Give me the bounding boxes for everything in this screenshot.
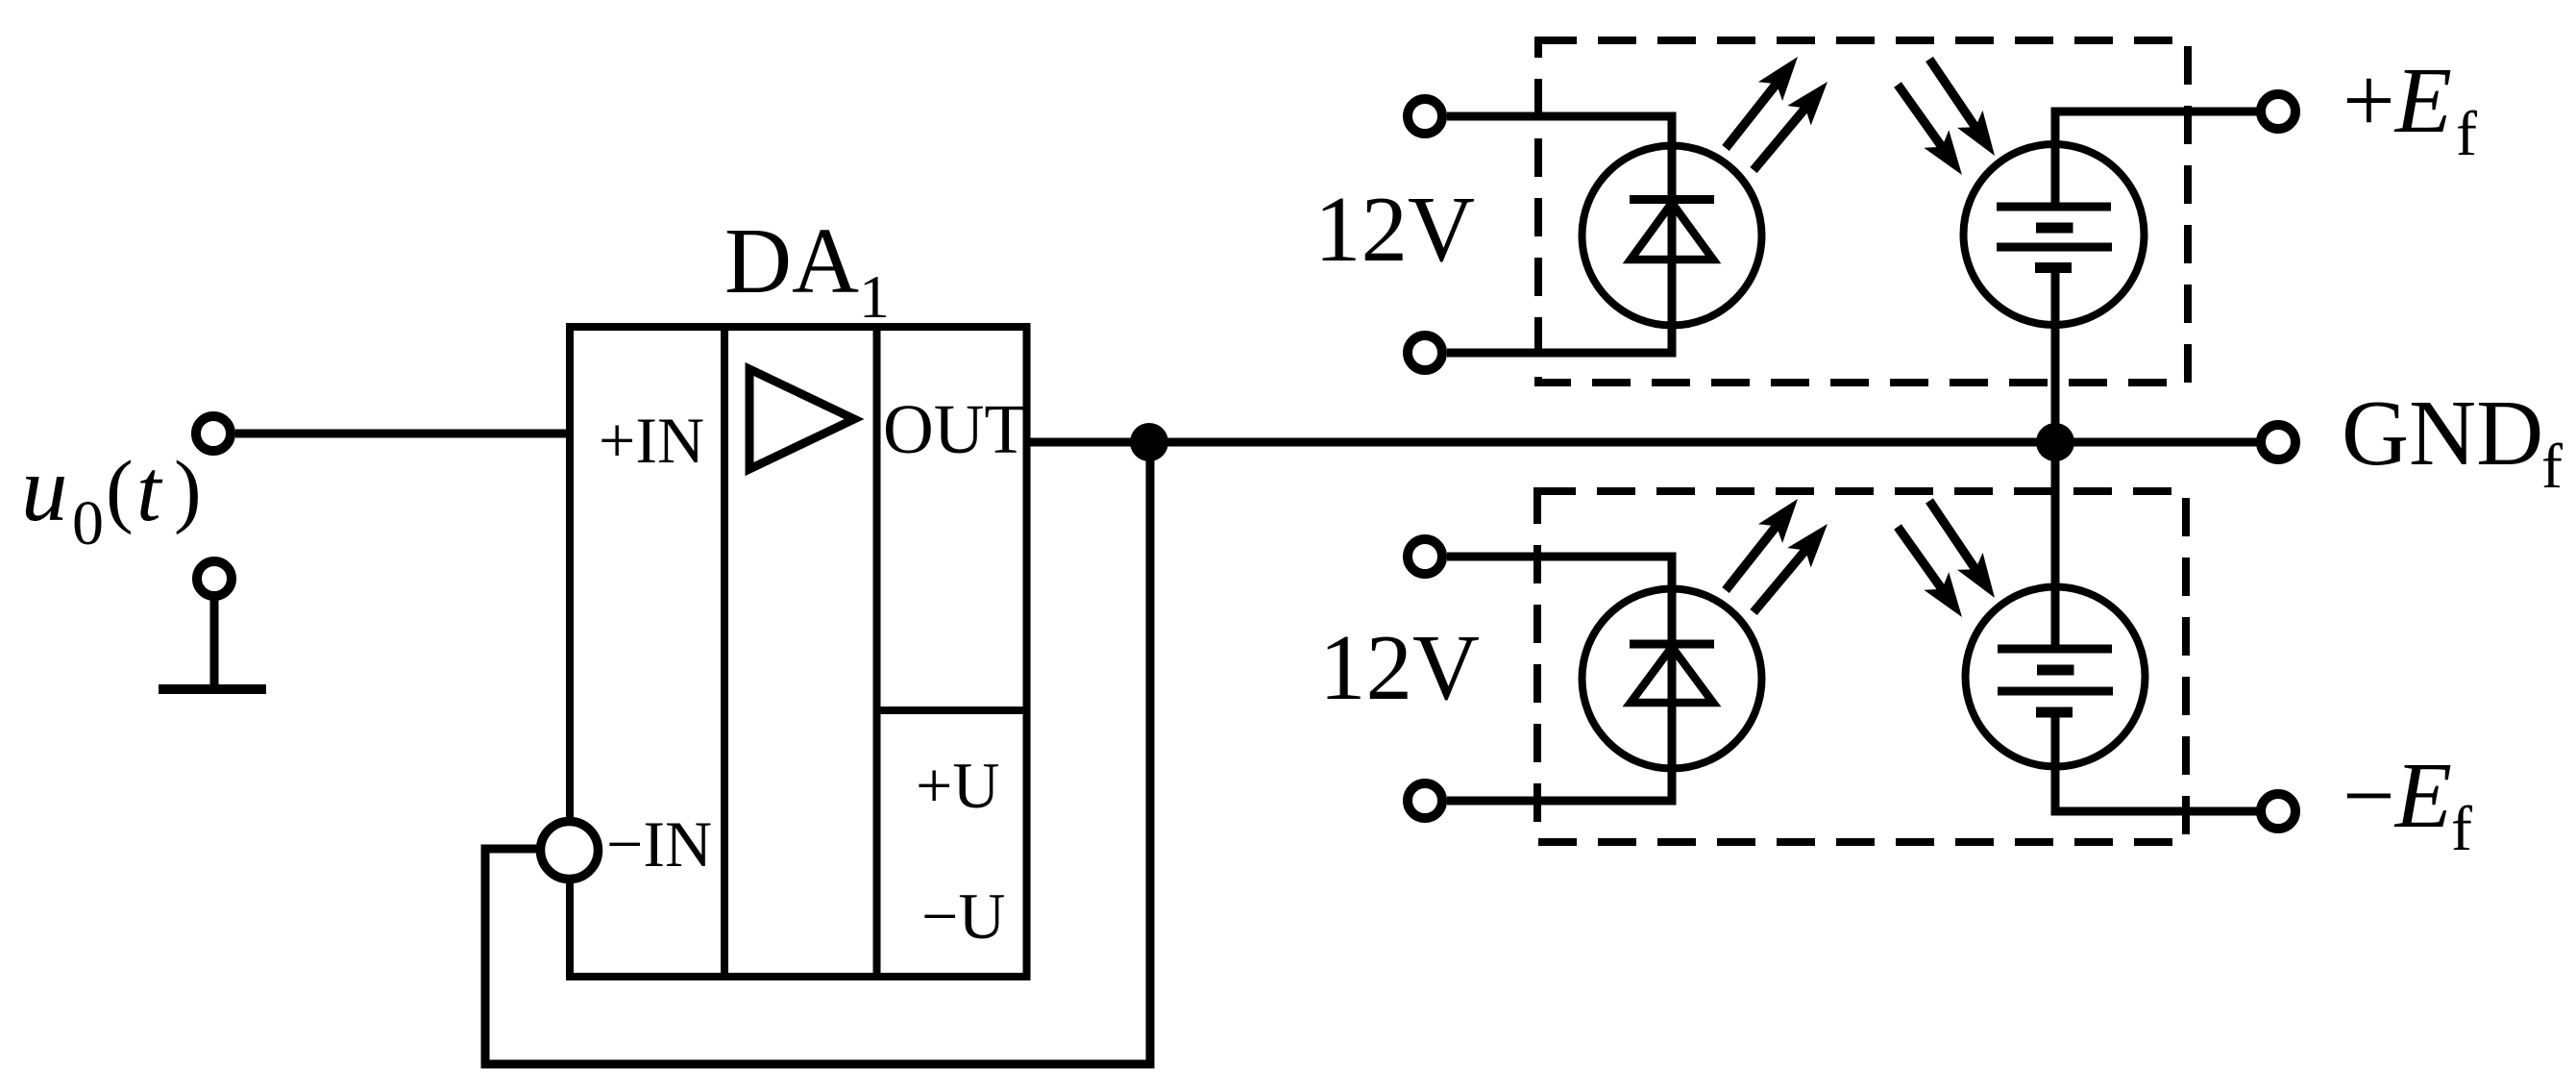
wire 12V bottom a to LED2 [1447, 553, 1677, 561]
wire 12V bottom b to LED2 [1447, 797, 1677, 806]
svg-text:f: f [2541, 432, 2563, 502]
svg-text:f: f [2456, 99, 2477, 169]
wire LED1 vertical [1668, 116, 1677, 353]
wire LED2 vertical [1668, 557, 1677, 801]
photocell B2 element plates [1998, 649, 2113, 712]
optocoupler 2 dashed box [1537, 491, 2186, 842]
terminal -Ef [2261, 794, 2295, 829]
LED D1 diode symbol [1630, 200, 1714, 260]
wire feedback left vertical [481, 845, 490, 1069]
wire feedback vertical from output junction [1146, 442, 1155, 1064]
svg-text:−U: −U [921, 880, 1005, 953]
junction output node [1130, 423, 1168, 461]
svg-text:f: f [2451, 794, 2472, 864]
terminal GNDf [2261, 425, 2295, 459]
photocell B1 element plates [1997, 207, 2112, 268]
svg-text:+E: +E [2343, 49, 2452, 152]
svg-text:−IN: −IN [606, 807, 712, 880]
inverting input circle -IN [541, 822, 599, 880]
terminal 12V bottom b [1408, 783, 1442, 818]
svg-text:+IN: +IN [599, 404, 704, 477]
svg-text:t: t [136, 441, 163, 539]
terminal input + [196, 416, 231, 451]
junction GNDf node [2036, 423, 2074, 461]
wire feedback bottom horizontal [481, 1060, 1155, 1069]
wire photocell B2 bottom to -Ef [2055, 712, 2261, 811]
photocell B1 reception arrows [1898, 60, 1995, 176]
op-amp triangle symbol [749, 369, 854, 469]
wire photocell B1 top to +Ef [2055, 112, 2261, 207]
ground [159, 600, 266, 689]
svg-text:OUT: OUT [883, 390, 1027, 468]
svg-text:+U: +U [916, 749, 999, 822]
op-amp DA1 body [570, 323, 1031, 980]
terminal 12V top b [1408, 335, 1442, 370]
LED D1 emission arrows [1726, 57, 1828, 170]
photocell B2 reception arrows [1898, 501, 1995, 617]
wire feedback into -IN [485, 845, 538, 854]
photocell B2 circle [1966, 587, 2146, 767]
wire GNDf junction to photocell B2 top [2051, 442, 2060, 649]
LED D1 circle [1582, 146, 1762, 326]
wire OUT to GNDf [1026, 438, 2261, 447]
LED D2 emission arrows [1726, 499, 1828, 612]
svg-text:12V: 12V [1319, 616, 1480, 719]
optocoupler 1 dashed box [1538, 40, 2188, 383]
wire input to +IN [235, 430, 574, 438]
svg-text:−E: −E [2343, 744, 2452, 847]
svg-text:(: ( [106, 443, 134, 535]
terminal +Ef [2261, 94, 2295, 129]
svg-text:1: 1 [859, 262, 890, 331]
wire photocell B1 bottom to GNDf junction [2051, 268, 2060, 443]
svg-text:0: 0 [72, 488, 104, 558]
LED D2 diode symbol [1630, 644, 1714, 703]
wire 12V top b to LED1 [1447, 349, 1677, 358]
terminal 12V bottom a [1408, 539, 1442, 574]
LED D2 circle [1582, 589, 1762, 769]
terminal input - (grounded) [197, 561, 232, 596]
svg-text:GND: GND [2342, 382, 2543, 484]
svg-text:12V: 12V [1314, 178, 1475, 281]
svg-text:DA: DA [724, 210, 859, 312]
photocell B1 circle [1964, 144, 2145, 325]
terminal 12V top a [1408, 99, 1442, 134]
svg-text:): ) [174, 443, 202, 535]
svg-text:u: u [21, 437, 68, 540]
wire 12V top a to LED1 [1447, 112, 1677, 121]
